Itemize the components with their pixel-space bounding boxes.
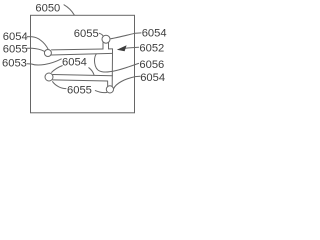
leader 6054 right-top: [111, 33, 141, 39]
wire bar1 right end: [112, 49, 114, 54]
link wire between bars: [111, 53, 113, 86]
svg-text:6050: 6050: [35, 3, 60, 15]
leader 6054 right-bottom: [114, 76, 141, 88]
leader 6054 inner left: [52, 66, 63, 73]
wire bar1 top edge: [52, 48, 104, 51]
neck to top pad: [103, 43, 109, 49]
enclosure box 6050: [31, 15, 135, 113]
leader 6052 tail: [125, 47, 139, 48]
svg-text:6055: 6055: [3, 43, 28, 55]
leader 6054 inner right: [89, 68, 94, 75]
svg-text:6054: 6054: [142, 28, 167, 40]
wire bar1 bottom edge: [51, 53, 112, 55]
svg-text:6054: 6054: [140, 72, 165, 84]
wire bar2 bottom edge: [53, 80, 108, 81]
leader 6056: [95, 54, 139, 72]
arrow 6052: [117, 45, 127, 51]
pad 6055 left-bottom: [45, 73, 53, 81]
pad 6055 left-top: [44, 50, 51, 57]
leader 6050: [64, 5, 74, 15]
svg-text:6055: 6055: [74, 28, 99, 40]
leader 6055 bottom-inner left: [53, 82, 67, 89]
wire bar2 top edge: [53, 75, 113, 76]
svg-text:6052: 6052: [139, 42, 164, 54]
leader 6055 top-inner: [99, 33, 103, 36]
wire bar1 top edge right stub: [109, 48, 113, 50]
svg-text:6056: 6056: [139, 59, 164, 71]
leader 6053 left: [27, 59, 61, 65]
svg-text:6054: 6054: [3, 31, 28, 43]
svg-text:6055: 6055: [67, 85, 92, 97]
pad 6055 top: [102, 35, 110, 43]
leader 6054 left: [27, 37, 48, 50]
leader 6055 left: [27, 48, 44, 51]
leader 6055 bottom-inner right: [95, 91, 107, 93]
svg-text:6053: 6053: [2, 57, 27, 69]
pad 6055 bottom: [106, 86, 113, 93]
svg-text:6054: 6054: [62, 56, 87, 68]
wire drop to bottom pad: [107, 81, 109, 87]
